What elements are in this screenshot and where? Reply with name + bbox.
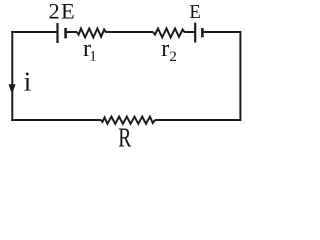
svg-text:1: 1	[89, 49, 97, 65]
svg-text:i: i	[24, 67, 32, 97]
wire left side vertical	[11, 31, 13, 121]
resistor r2 zigzag	[153, 29, 184, 38]
wire bottom-left segment	[11, 119, 101, 121]
current arrow i (down) on left wire	[8, 84, 15, 94]
battery E short plate	[201, 28, 204, 37]
svg-text:E: E	[189, 1, 200, 23]
wire bottom-right segment	[155, 119, 241, 121]
wire r1 to r2	[106, 31, 153, 33]
battery E long plate	[194, 23, 196, 43]
wire battery E to top-right corner	[204, 31, 241, 33]
svg-text:2: 2	[169, 49, 177, 65]
wire battery 2E to r1	[67, 31, 78, 33]
wire top-left segment	[11, 31, 57, 33]
svg-text:R: R	[118, 123, 131, 152]
svg-text:2E: 2E	[49, 0, 76, 24]
wire r2 to battery E	[185, 31, 194, 33]
battery 2E long plate	[56, 23, 58, 43]
resistor r1 zigzag	[77, 29, 106, 38]
resistor R zigzag	[101, 117, 155, 124]
wire right side vertical	[239, 31, 241, 121]
svg-text:r: r	[161, 36, 169, 62]
battery 2E short plate	[64, 28, 67, 38]
